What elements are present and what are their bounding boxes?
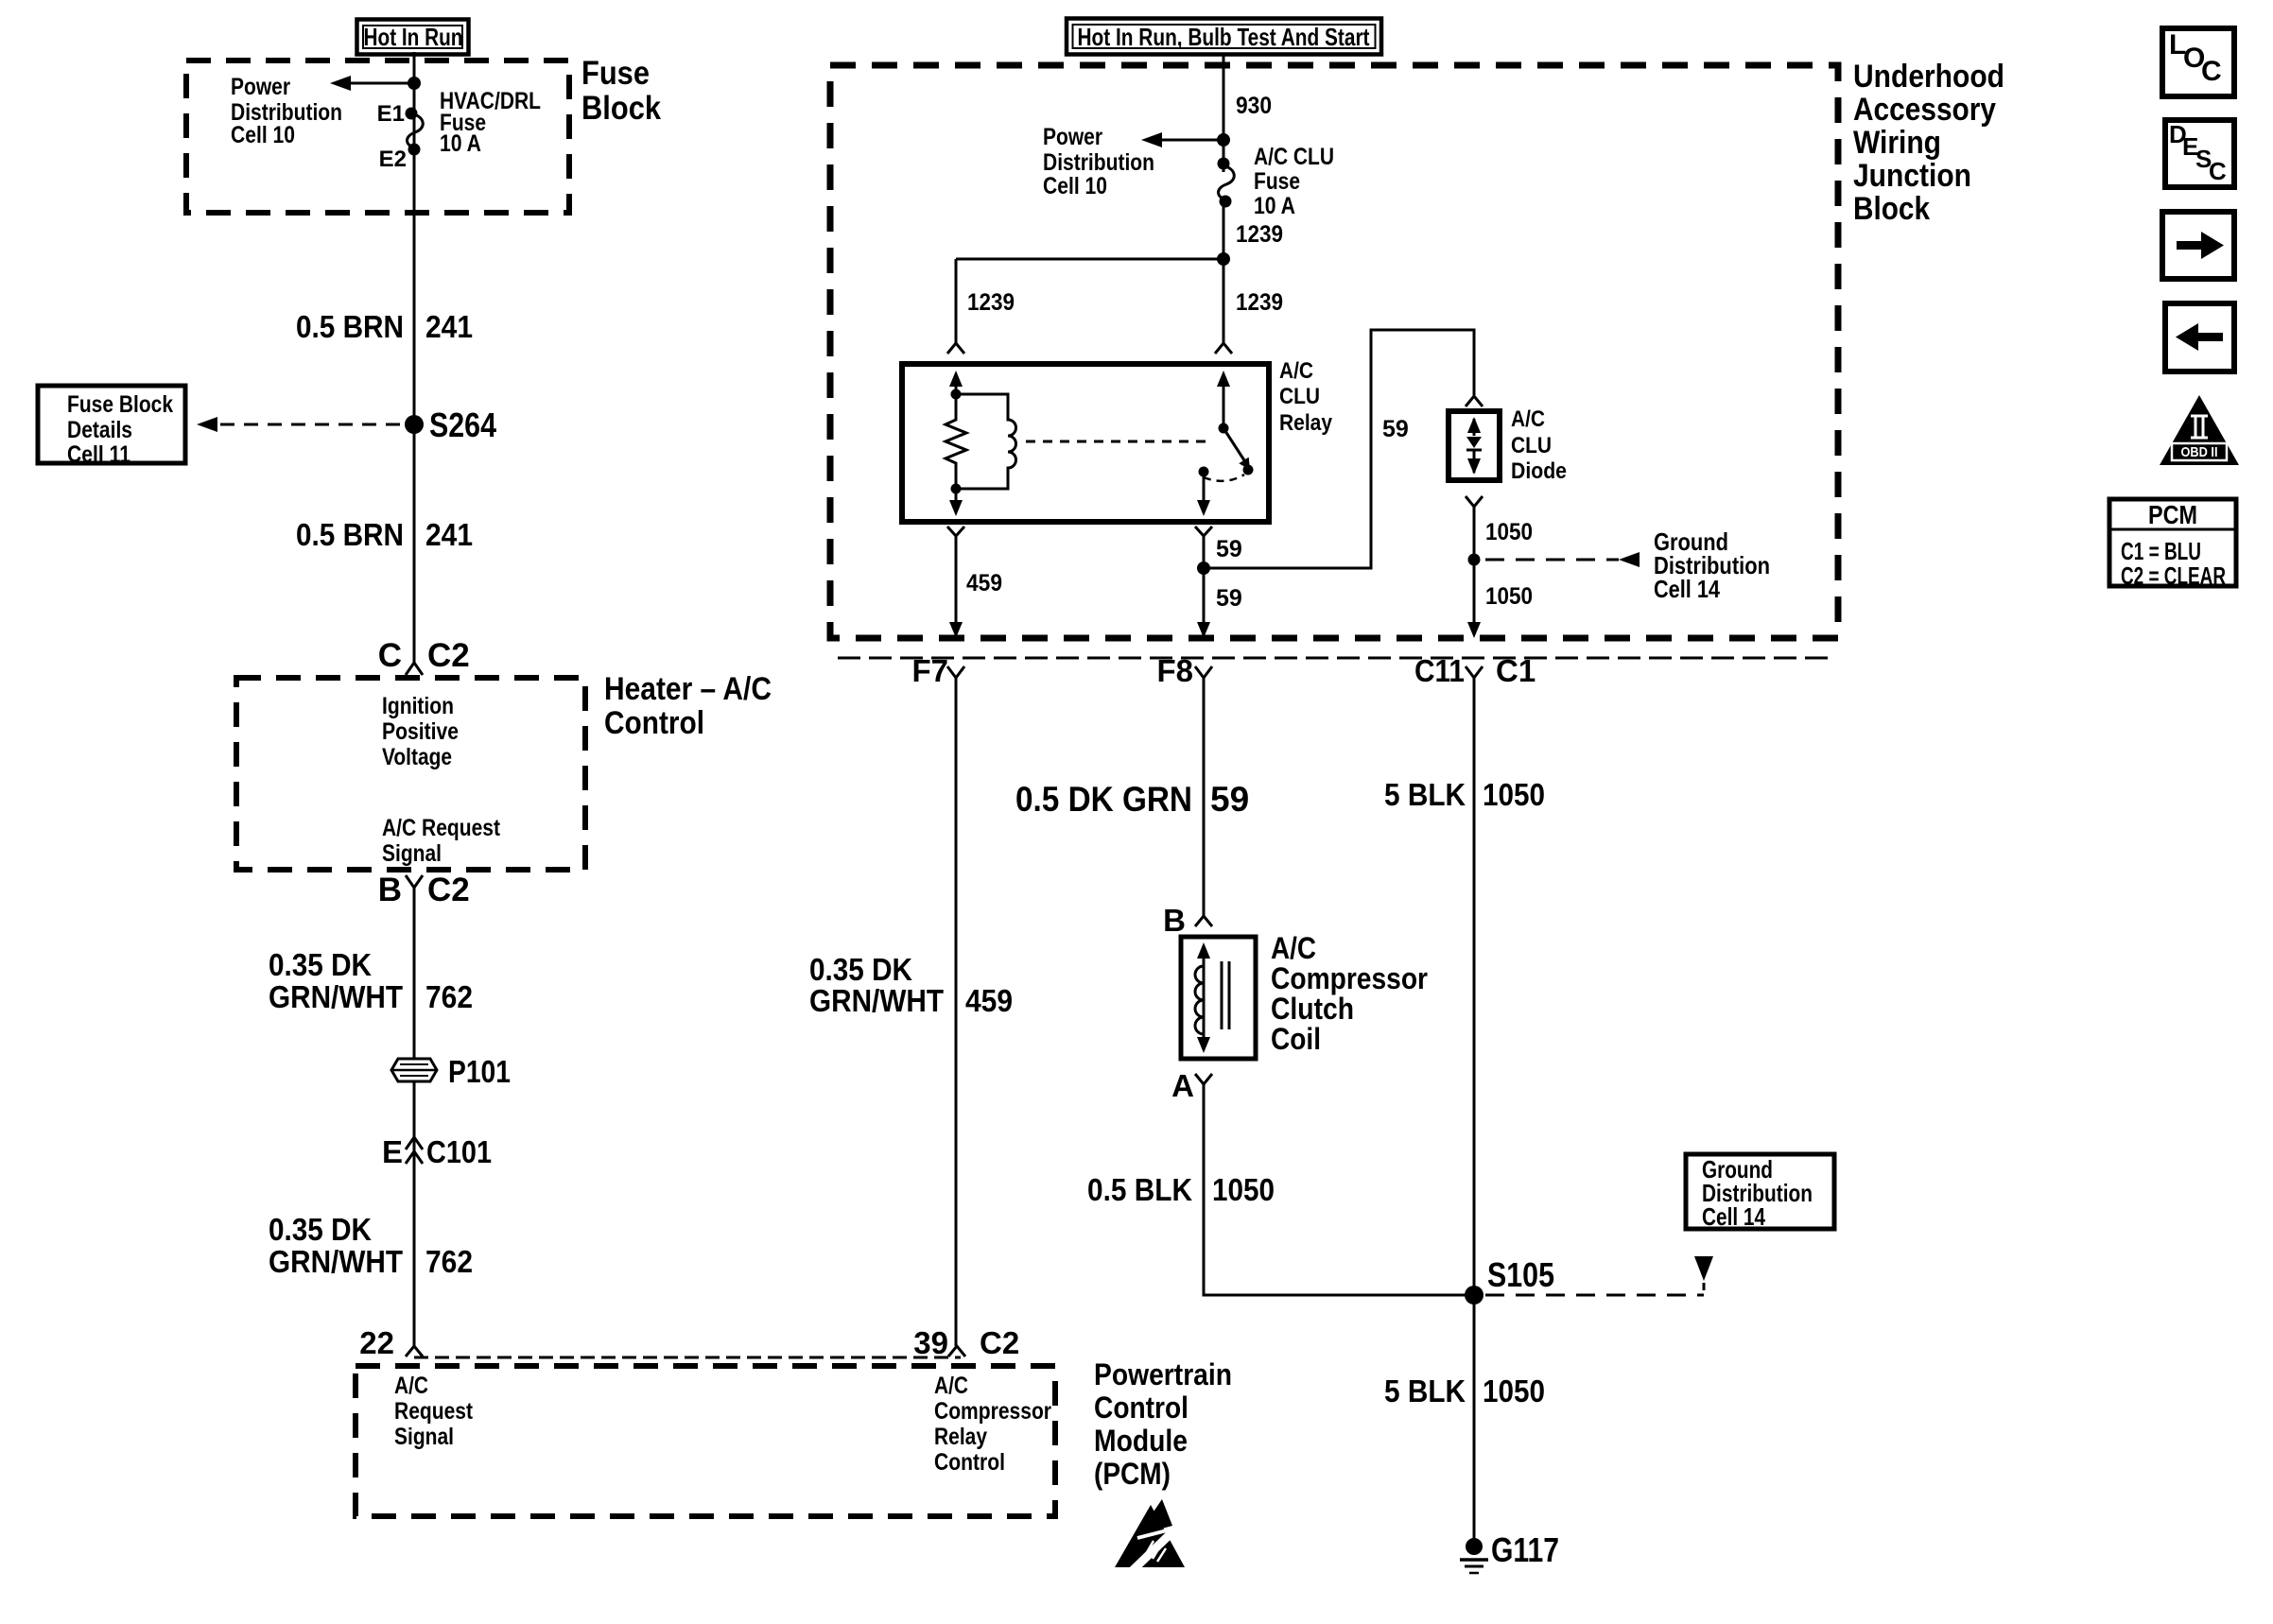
svg-text:1050: 1050 [1483, 777, 1545, 812]
svg-text:1050: 1050 [1483, 1373, 1545, 1408]
svg-text:Wiring: Wiring [1853, 125, 1941, 161]
svg-text:Power: Power [231, 74, 290, 100]
svg-text:Underhood: Underhood [1853, 59, 2004, 95]
svg-text:22: 22 [359, 1325, 394, 1360]
svg-text:C: C [2209, 157, 2227, 185]
svg-text:E2: E2 [379, 147, 407, 172]
svg-text:A/C: A/C [1511, 406, 1545, 432]
svg-text:Diode: Diode [1511, 458, 1567, 484]
svg-text:GRN/WHT: GRN/WHT [269, 979, 403, 1014]
svg-text:CLU: CLU [1279, 384, 1320, 409]
svg-text:241: 241 [425, 517, 473, 552]
svg-text:Fuse: Fuse [581, 55, 650, 92]
svg-text:Heater – A/C: Heater – A/C [604, 671, 772, 707]
svg-text:Compressor: Compressor [1271, 961, 1428, 995]
svg-text:Cell 11: Cell 11 [67, 441, 130, 468]
svg-text:Voltage: Voltage [382, 744, 452, 770]
svg-text:Fuse: Fuse [1254, 168, 1300, 195]
svg-text:Ignition: Ignition [382, 693, 454, 719]
svg-text:Accessory: Accessory [1853, 92, 1996, 128]
svg-text:S264: S264 [429, 406, 496, 444]
svg-text:0.35 DK: 0.35 DK [269, 1212, 372, 1247]
svg-text:Coil: Coil [1271, 1022, 1321, 1056]
svg-text:0.35 DK: 0.35 DK [809, 952, 912, 987]
svg-text:459: 459 [966, 570, 1002, 596]
svg-text:Hot In Run: Hot In Run [364, 23, 463, 51]
svg-text:Cell 14: Cell 14 [1702, 1202, 1765, 1231]
svg-text:Control: Control [934, 1449, 1005, 1476]
svg-text:E: E [382, 1134, 403, 1169]
svg-text:Positive: Positive [382, 718, 459, 745]
svg-text:Cell 10: Cell 10 [231, 122, 295, 148]
svg-text:F8: F8 [1156, 653, 1193, 688]
svg-text:0.5 BRN: 0.5 BRN [296, 517, 404, 552]
svg-text:0.5 BLK: 0.5 BLK [1087, 1172, 1192, 1207]
svg-text:39: 39 [913, 1325, 948, 1360]
svg-text:0.5 DK GRN: 0.5 DK GRN [1015, 780, 1192, 819]
svg-text:Powertrain: Powertrain [1094, 1357, 1232, 1391]
svg-text:1050: 1050 [1485, 583, 1533, 610]
svg-text:241: 241 [425, 309, 473, 344]
svg-text:Control: Control [604, 705, 704, 741]
svg-text:C1: C1 [1496, 653, 1536, 688]
svg-text:C: C [378, 637, 402, 674]
svg-text:C11: C11 [1414, 653, 1465, 688]
svg-text:(PCM): (PCM) [1094, 1457, 1171, 1491]
svg-text:Fuse Block: Fuse Block [67, 391, 173, 418]
svg-text:G117: G117 [1491, 1530, 1559, 1569]
svg-text:C2 = CLEAR: C2 = CLEAR [2121, 561, 2226, 590]
svg-text:Block: Block [1853, 191, 1930, 227]
svg-text:OBD II: OBD II [2181, 444, 2218, 460]
svg-text:A/C CLU: A/C CLU [1254, 144, 1334, 170]
svg-text:Distribution: Distribution [1043, 149, 1154, 176]
svg-text:Hot In Run, Bulb Test And Star: Hot In Run, Bulb Test And Start [1078, 23, 1370, 51]
svg-text:Request: Request [394, 1398, 474, 1425]
svg-text:0.35 DK: 0.35 DK [269, 947, 372, 982]
svg-text:Control: Control [1094, 1391, 1189, 1425]
svg-text:C2: C2 [427, 872, 470, 908]
svg-text:930: 930 [1236, 93, 1272, 119]
svg-text:1050: 1050 [1485, 519, 1533, 545]
svg-text:A/C: A/C [934, 1373, 968, 1399]
svg-text:E1: E1 [377, 101, 405, 127]
svg-text:Relay: Relay [1279, 410, 1333, 436]
svg-text:GRN/WHT: GRN/WHT [269, 1244, 403, 1279]
svg-text:Junction: Junction [1853, 158, 1971, 194]
svg-text:Power: Power [1043, 124, 1102, 150]
svg-text:C101: C101 [426, 1134, 492, 1169]
svg-text:P101: P101 [448, 1054, 511, 1089]
svg-text:S105: S105 [1487, 1255, 1554, 1294]
svg-text:1239: 1239 [1236, 221, 1283, 248]
svg-text:Signal: Signal [382, 840, 442, 867]
svg-text:A/C: A/C [394, 1373, 428, 1399]
svg-text:Relay: Relay [934, 1424, 987, 1450]
svg-text:B: B [1163, 903, 1186, 938]
svg-text:1239: 1239 [1236, 289, 1283, 316]
svg-text:Cell 14: Cell 14 [1654, 575, 1720, 603]
svg-text:PCM: PCM [2148, 500, 2197, 529]
svg-text:5 BLK: 5 BLK [1384, 777, 1466, 812]
svg-text:C: C [2201, 56, 2222, 87]
svg-text:Compressor: Compressor [934, 1398, 1051, 1425]
svg-text:Block: Block [581, 90, 661, 127]
svg-text:Module: Module [1094, 1424, 1188, 1458]
svg-text:1239: 1239 [967, 289, 1015, 316]
svg-text:CLU: CLU [1511, 433, 1552, 458]
svg-text:Cell 10: Cell 10 [1043, 173, 1107, 199]
svg-text:59: 59 [1216, 585, 1242, 612]
svg-text:0.5 BRN: 0.5 BRN [296, 309, 404, 344]
svg-text:Details: Details [67, 417, 132, 443]
svg-text:F7: F7 [911, 653, 948, 688]
svg-text:10 A: 10 A [440, 130, 481, 157]
svg-text:59: 59 [1210, 780, 1249, 819]
svg-text:A/C: A/C [1271, 931, 1316, 965]
svg-text:5 BLK: 5 BLK [1384, 1373, 1466, 1408]
svg-text:1050: 1050 [1212, 1172, 1275, 1207]
svg-text:A/C: A/C [1279, 358, 1313, 384]
svg-text:Signal: Signal [394, 1424, 454, 1450]
svg-text:59: 59 [1382, 416, 1409, 442]
svg-text:459: 459 [965, 983, 1013, 1018]
svg-text:10 A: 10 A [1254, 193, 1295, 219]
svg-text:GRN/WHT: GRN/WHT [809, 983, 944, 1018]
svg-text:C2: C2 [980, 1325, 1019, 1360]
svg-text:B: B [378, 872, 402, 908]
svg-text:59: 59 [1216, 536, 1242, 562]
svg-text:Clutch: Clutch [1271, 992, 1354, 1026]
svg-text:762: 762 [425, 979, 473, 1014]
svg-text:A/C Request: A/C Request [382, 815, 501, 841]
svg-text:762: 762 [425, 1244, 473, 1279]
svg-text:A: A [1171, 1068, 1194, 1103]
svg-text:C2: C2 [427, 637, 470, 674]
